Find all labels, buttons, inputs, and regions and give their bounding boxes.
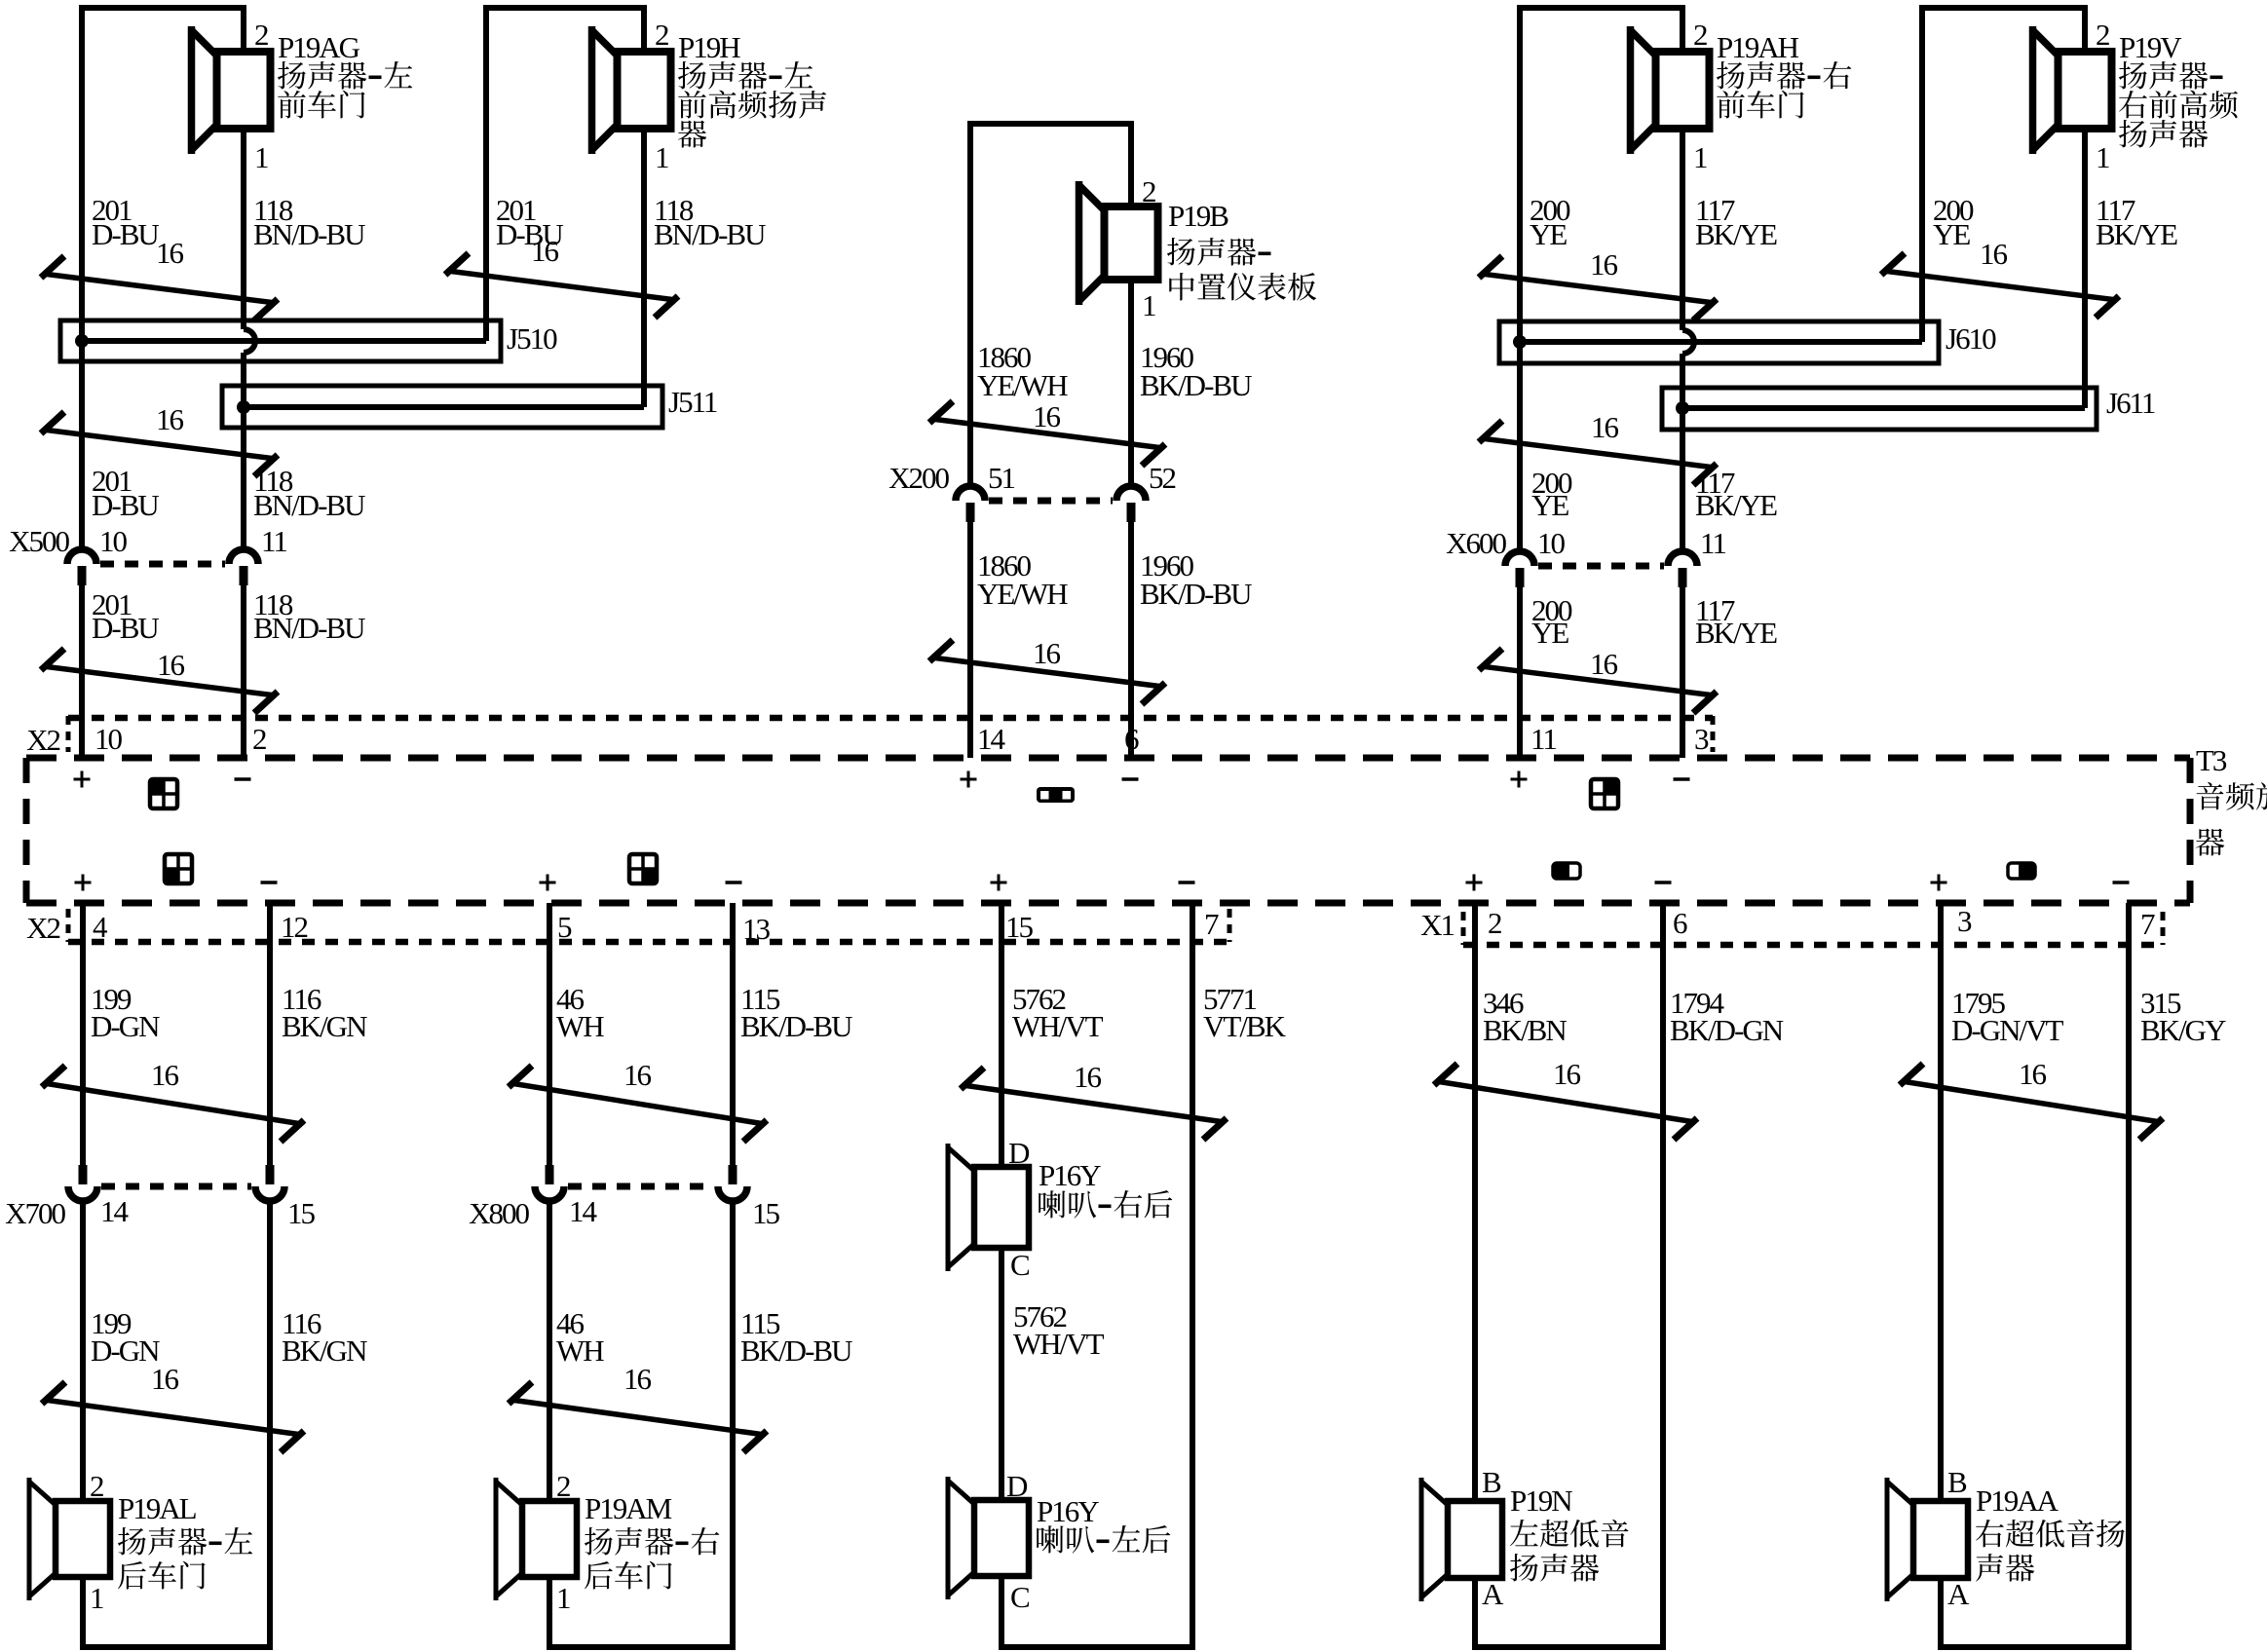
svg-text:11: 11 (261, 524, 286, 558)
svg-text:X2: X2 (26, 911, 59, 945)
svg-text:6: 6 (1124, 722, 1139, 756)
speaker P19AL 扬声器-左后车门 (56, 1501, 110, 1577)
svg-text:2: 2 (1488, 906, 1501, 940)
svg-text:YE: YE (1531, 616, 1568, 650)
speaker P19AG 扬声器-左前车门 (217, 52, 271, 129)
svg-text:J610: J610 (1946, 321, 1996, 356)
splice J510 (60, 320, 501, 361)
svg-text:P19B: P19B (1168, 199, 1228, 233)
svg-text:P19AG: P19AG (278, 30, 360, 64)
svg-text:X2: X2 (26, 723, 59, 757)
svg-text:P16Y: P16Y (1037, 1494, 1099, 1528)
svg-text:2: 2 (556, 1469, 570, 1503)
svg-text:1: 1 (90, 1581, 103, 1615)
svg-text:D-GN: D-GN (91, 1009, 160, 1043)
wire 1794 BK/D-GN left subwoofer - (1660, 903, 1666, 1644)
svg-text:16: 16 (1033, 399, 1061, 433)
svg-text:1: 1 (2096, 140, 2109, 174)
svg-text:12: 12 (281, 910, 308, 944)
svg-text:2: 2 (1693, 18, 1707, 52)
label P19AH (1717, 30, 1851, 118)
svg-text:D-GN: D-GN (91, 1333, 160, 1368)
svg-text:7: 7 (1204, 907, 1219, 941)
wire labels 5762 WH/VT / 5771 VT/BK (1012, 982, 1287, 1043)
amp channel front-right +/- and icon (1511, 771, 1690, 809)
svg-text:16: 16 (156, 236, 184, 270)
wire 199 D-GN rear-left door + (80, 903, 86, 1644)
svg-text:BK/YE: BK/YE (2096, 217, 2177, 251)
wire 5771 VT/BK horn return (1190, 903, 1195, 1644)
svg-text:16: 16 (151, 1058, 179, 1092)
svg-text:WH: WH (556, 1009, 604, 1043)
svg-text:BK/GN: BK/GN (282, 1333, 367, 1368)
amp channel horns +/- (991, 875, 1195, 891)
splice J611 (1662, 388, 2097, 430)
svg-text:16: 16 (1980, 237, 2008, 271)
svg-text:16: 16 (156, 402, 184, 436)
svg-text:14: 14 (100, 1194, 130, 1228)
label P19AM (585, 1491, 719, 1590)
connector row X2 (amplifier top) (26, 716, 1713, 757)
wire labels row C right (1531, 593, 1777, 650)
wire loop P19H pin2 to 201 D-BU (483, 8, 647, 48)
wire labels 201 D-BU / 118 BN/D-BU (row A left) (92, 193, 365, 251)
svg-text:16: 16 (151, 1362, 179, 1396)
wire 117 BK/YE from P19V pin1 into J611 (2082, 132, 2088, 408)
wire gauge 16 marker below J511 left (41, 412, 278, 476)
svg-text:P19H: P19H (678, 30, 740, 64)
svg-text:BN/D-BU: BN/D-BU (253, 611, 365, 645)
wire gauge 16 marker col3 (961, 1068, 1227, 1140)
svg-text:X800: X800 (469, 1196, 529, 1230)
label P19AG (278, 30, 412, 118)
wire 315 BK/GY right subwoofer - (2126, 903, 2132, 1644)
svg-text:VT/BK: VT/BK (1203, 1009, 1287, 1043)
wire 115 BK/D-BU rear-right door - (730, 903, 736, 1644)
svg-text:A: A (1947, 1577, 1970, 1611)
svg-text:11: 11 (1530, 722, 1556, 756)
svg-text:1: 1 (655, 140, 668, 174)
svg-text:2: 2 (2096, 18, 2109, 52)
wire labels 199 D-GN / 116 BK/GN row1 (91, 982, 367, 1043)
svg-text:10: 10 (94, 722, 123, 756)
wire labels 346 BK/BN / 1794 BK/D-GN (1483, 986, 1784, 1047)
label P16Y left-rear (1037, 1494, 1170, 1554)
svg-text:J510: J510 (507, 321, 557, 356)
wire 46 WH rear-right door + (547, 903, 552, 1644)
svg-text:7: 7 (2140, 907, 2155, 941)
svg-text:14: 14 (569, 1194, 598, 1228)
connector X500 pins 10/11 (67, 549, 96, 564)
svg-text:16: 16 (1590, 247, 1618, 282)
speaker P19N 左超低音扬声器 (1448, 1501, 1502, 1578)
wire gauge 16 marker above amp left (41, 649, 278, 713)
svg-text:BK/D-BU: BK/D-BU (740, 1009, 852, 1043)
speaker P19AA 右超低音扬声器 (1913, 1501, 1968, 1578)
wire labels 1860 YE/WH / 1960 BK/D-BU (row A center) (977, 340, 1252, 402)
label P19N (1510, 1483, 1628, 1582)
svg-text:6: 6 (1673, 906, 1687, 940)
svg-text:D: D (1008, 1136, 1030, 1170)
svg-text:YE: YE (1530, 217, 1567, 251)
wire loop bottom P19AL (80, 1644, 273, 1650)
horn P16Y 喇叭-左后 (974, 1500, 1029, 1576)
svg-text:1: 1 (1142, 288, 1155, 322)
svg-text:P19AH: P19AH (1717, 30, 1799, 64)
svg-text:BN/D-BU: BN/D-BU (253, 488, 365, 522)
svg-text:BK/YE: BK/YE (1695, 488, 1777, 522)
svg-text:16: 16 (1074, 1060, 1102, 1094)
svg-text:BK/D-BU: BK/D-BU (1140, 577, 1252, 611)
svg-text:D-GN/VT: D-GN/VT (1951, 1013, 2063, 1047)
speaker P19H 扬声器-左前高频扬声器 (618, 52, 671, 129)
wire loop bottom P16Y (999, 1644, 1195, 1650)
svg-text:X1: X1 (1420, 908, 1454, 942)
connector X800 pins 14/15 (535, 1186, 564, 1201)
label P19B (1167, 199, 1316, 301)
label P19H (678, 30, 826, 148)
label T3 音频放大器 (2196, 743, 2267, 856)
connector X600 pins 10/11 (1505, 551, 1534, 566)
svg-text:16: 16 (1033, 636, 1061, 670)
svg-text:16: 16 (157, 648, 185, 682)
svg-text:X500: X500 (9, 524, 69, 558)
wire gauge 16 marker col1 row2 (42, 1382, 304, 1452)
svg-text:10: 10 (99, 524, 128, 558)
wire gauge 16 marker col5 (1900, 1064, 2163, 1140)
wire loop P19AG pin2 to 201 D-BU (79, 8, 246, 48)
amp channel rear-right +/- and icon (540, 854, 742, 891)
wire labels 199 D-GN / 116 BK/GN row2 (91, 1306, 367, 1368)
amp channel front-left +/- and icon (74, 771, 251, 809)
svg-text:BK/D-GN: BK/D-GN (1670, 1013, 1784, 1047)
wire labels row C left (92, 587, 365, 645)
wire 116 BK/GN rear-left door - (267, 903, 273, 1644)
wire 346 BK/BN left subwoofer + (1472, 903, 1478, 1644)
splice J511 (222, 386, 662, 428)
label P19AA (1976, 1483, 2125, 1582)
wire label 5762 WH/VT between horns (1013, 1299, 1105, 1361)
svg-text:16: 16 (623, 1362, 652, 1396)
speaker P19B 扬声器-中置仪表板 (1105, 206, 1158, 280)
svg-text:5: 5 (557, 910, 572, 944)
label P16Y right-rear (1039, 1158, 1172, 1219)
svg-text:T3: T3 (2196, 743, 2227, 777)
label P19AL (118, 1491, 252, 1590)
svg-text:BK/BN: BK/BN (1483, 1013, 1567, 1047)
wire 118 BN/D-BU from P19AG pin1 (244, 132, 255, 758)
amp channel center +/- and icon (961, 771, 1139, 804)
wire labels row B right (1531, 466, 1777, 522)
svg-text:2: 2 (252, 722, 266, 756)
wire gauge 16 marker center above amp (929, 640, 1165, 704)
wire labels 46 WH / 115 BK/D-BU row2 (556, 1306, 852, 1368)
svg-text:1: 1 (556, 1581, 570, 1615)
svg-text:WH/VT: WH/VT (1013, 1327, 1105, 1361)
svg-text:BK/YE: BK/YE (1695, 217, 1777, 251)
svg-text:14: 14 (977, 722, 1006, 756)
connector X200 pins 51/52 (956, 486, 985, 501)
svg-text:3: 3 (1694, 722, 1709, 756)
svg-text:P19V: P19V (2119, 30, 2182, 64)
svg-text:2: 2 (1142, 174, 1155, 208)
svg-text:16: 16 (1591, 410, 1619, 444)
wire gauge 16 marker P19H pair (445, 253, 678, 318)
svg-text:J611: J611 (2106, 386, 2155, 420)
wire labels 46 WH / 115 BK/D-BU row1 (556, 982, 852, 1043)
speaker P19V 扬声器-右前高频扬声器 (2059, 52, 2112, 129)
amp channel rear-left +/- and icon (75, 854, 278, 891)
wire labels row B left (92, 464, 365, 522)
svg-text:BN/D-BU: BN/D-BU (654, 217, 766, 251)
wire loop P19V pin2 to 200 YE (1919, 8, 2088, 48)
svg-text:15: 15 (287, 1196, 316, 1230)
connector X700 pins 14/15 (68, 1186, 97, 1201)
svg-text:D: D (1006, 1469, 1028, 1503)
wire labels row B center (977, 548, 1252, 611)
wire gauge 16 marker P19AH pair (1479, 256, 1717, 320)
svg-text:WH/VT: WH/VT (1012, 1009, 1104, 1043)
svg-text:P19AL: P19AL (118, 1491, 197, 1525)
svg-text:10: 10 (1537, 526, 1566, 560)
connector row X1 (amplifier bottom right) (1420, 904, 2163, 945)
svg-text:YE: YE (1531, 488, 1568, 522)
wire gauge 16 marker center above X200 (929, 401, 1165, 466)
svg-text:16: 16 (1590, 647, 1618, 681)
wire loop P19B pin2 to 1860 YE/WH (967, 124, 1134, 203)
svg-text:BN/D-BU: BN/D-BU (253, 217, 365, 251)
svg-text:2: 2 (90, 1469, 103, 1503)
svg-text:15: 15 (752, 1196, 780, 1230)
wire labels 1795 D-GN/VT / 315 BK/GY (1951, 986, 2226, 1047)
splice J610 (1499, 321, 1939, 363)
svg-text:3: 3 (1957, 904, 1972, 938)
wire gauge 16 marker col2 row2 (509, 1382, 767, 1452)
wire loop bottom P19N (1472, 1644, 1666, 1650)
svg-text:X700: X700 (5, 1196, 65, 1230)
wire 1860 YE/WH center dash speaker + (967, 124, 973, 758)
svg-text:YE: YE (1933, 217, 1970, 251)
svg-text:X600: X600 (1446, 526, 1506, 560)
wire 200 YE P19V branch into J610 (1919, 8, 1925, 342)
svg-text:P19AA: P19AA (1976, 1483, 2059, 1518)
wire 200 YE right front door (1517, 8, 1523, 758)
svg-text:YE/WH: YE/WH (977, 368, 1068, 402)
wire 1960 BK/D-BU from P19B pin1 (1128, 280, 1134, 758)
svg-text:C: C (1010, 1580, 1029, 1614)
connector row X2 (amplifier bottom) (26, 907, 1229, 946)
svg-text:16: 16 (623, 1058, 652, 1092)
svg-text:D-BU: D-BU (92, 217, 159, 251)
wire 201 D-BU left front door (X500 pin10 above) (79, 8, 85, 758)
wire gauge 16 marker P19AG pair (41, 256, 278, 320)
svg-text:D-BU: D-BU (92, 488, 159, 522)
svg-text:15: 15 (1005, 910, 1034, 944)
svg-text:1: 1 (254, 140, 268, 174)
amplifier T3 音频放大器 (dashed box) (26, 758, 2190, 903)
svg-text:1: 1 (1693, 140, 1707, 174)
amp channel left subwoofer +/- and icon (1466, 863, 1672, 891)
svg-text:51: 51 (988, 461, 1015, 495)
speaker P19AM 扬声器-右后车门 (522, 1501, 577, 1577)
svg-text:P19AM: P19AM (585, 1491, 672, 1525)
wire 5762 WH/VT horn feed (999, 903, 1004, 1644)
svg-text:16: 16 (2019, 1057, 2047, 1091)
horn P16Y 喇叭-右后 (974, 1167, 1029, 1248)
amp channel right subwoofer +/- and icon (1931, 863, 2130, 891)
svg-text:BK/D-BU: BK/D-BU (1140, 368, 1252, 402)
svg-text:BK/D-BU: BK/D-BU (740, 1333, 852, 1368)
wire gauge 16 marker above amp right (1479, 649, 1717, 713)
svg-text:J511: J511 (668, 385, 717, 419)
wire 117 BK/YE from P19AH pin1 (1682, 132, 1694, 758)
svg-text:D-BU: D-BU (92, 611, 159, 645)
svg-text:P16Y: P16Y (1039, 1158, 1101, 1192)
svg-text:X200: X200 (888, 461, 949, 495)
svg-text:A: A (1482, 1577, 1504, 1611)
wire loop P19AH pin2 to 200 YE (1517, 8, 1685, 48)
wire loop bottom P19AA (1938, 1644, 2132, 1650)
svg-text:B: B (1482, 1465, 1501, 1499)
svg-text:52: 52 (1149, 461, 1176, 495)
wire gauge 16 marker col1 row1 (42, 1066, 304, 1142)
wire 201 D-BU P19H branch into J510 (483, 8, 489, 341)
svg-text:2: 2 (254, 18, 268, 52)
wire 1795 D-GN/VT right subwoofer + (1938, 903, 1944, 1644)
wire 118 BN/D-BU from P19H pin1 into J511 (641, 132, 647, 407)
wire gauge 16 marker col4 (1434, 1064, 1697, 1140)
svg-text:16: 16 (531, 234, 559, 268)
wire gauge 16 marker below J611 right (1479, 421, 1717, 485)
svg-text:C: C (1010, 1248, 1029, 1282)
svg-text:13: 13 (742, 912, 771, 946)
wire gauge 16 marker col2 row1 (509, 1066, 767, 1142)
wire labels 200 YE / 117 BK/YE (row A right) (1530, 193, 1777, 251)
wire loop bottom P19AM (547, 1644, 736, 1650)
svg-text:P19N: P19N (1510, 1483, 1572, 1518)
wire gauge 16 marker P19V pair (1881, 253, 2119, 318)
svg-text:B: B (1947, 1465, 1967, 1499)
svg-text:BK/GN: BK/GN (282, 1009, 367, 1043)
svg-text:BK/GY: BK/GY (2140, 1013, 2226, 1047)
svg-text:YE/WH: YE/WH (977, 577, 1068, 611)
svg-text:BK/YE: BK/YE (1695, 616, 1777, 650)
speaker P19AH 扬声器-右前车门 (1656, 52, 1710, 129)
svg-text:WH: WH (556, 1333, 604, 1368)
svg-text:2: 2 (655, 18, 668, 52)
svg-text:16: 16 (1553, 1057, 1581, 1091)
label P19V (2119, 30, 2238, 148)
svg-text:11: 11 (1700, 526, 1725, 560)
